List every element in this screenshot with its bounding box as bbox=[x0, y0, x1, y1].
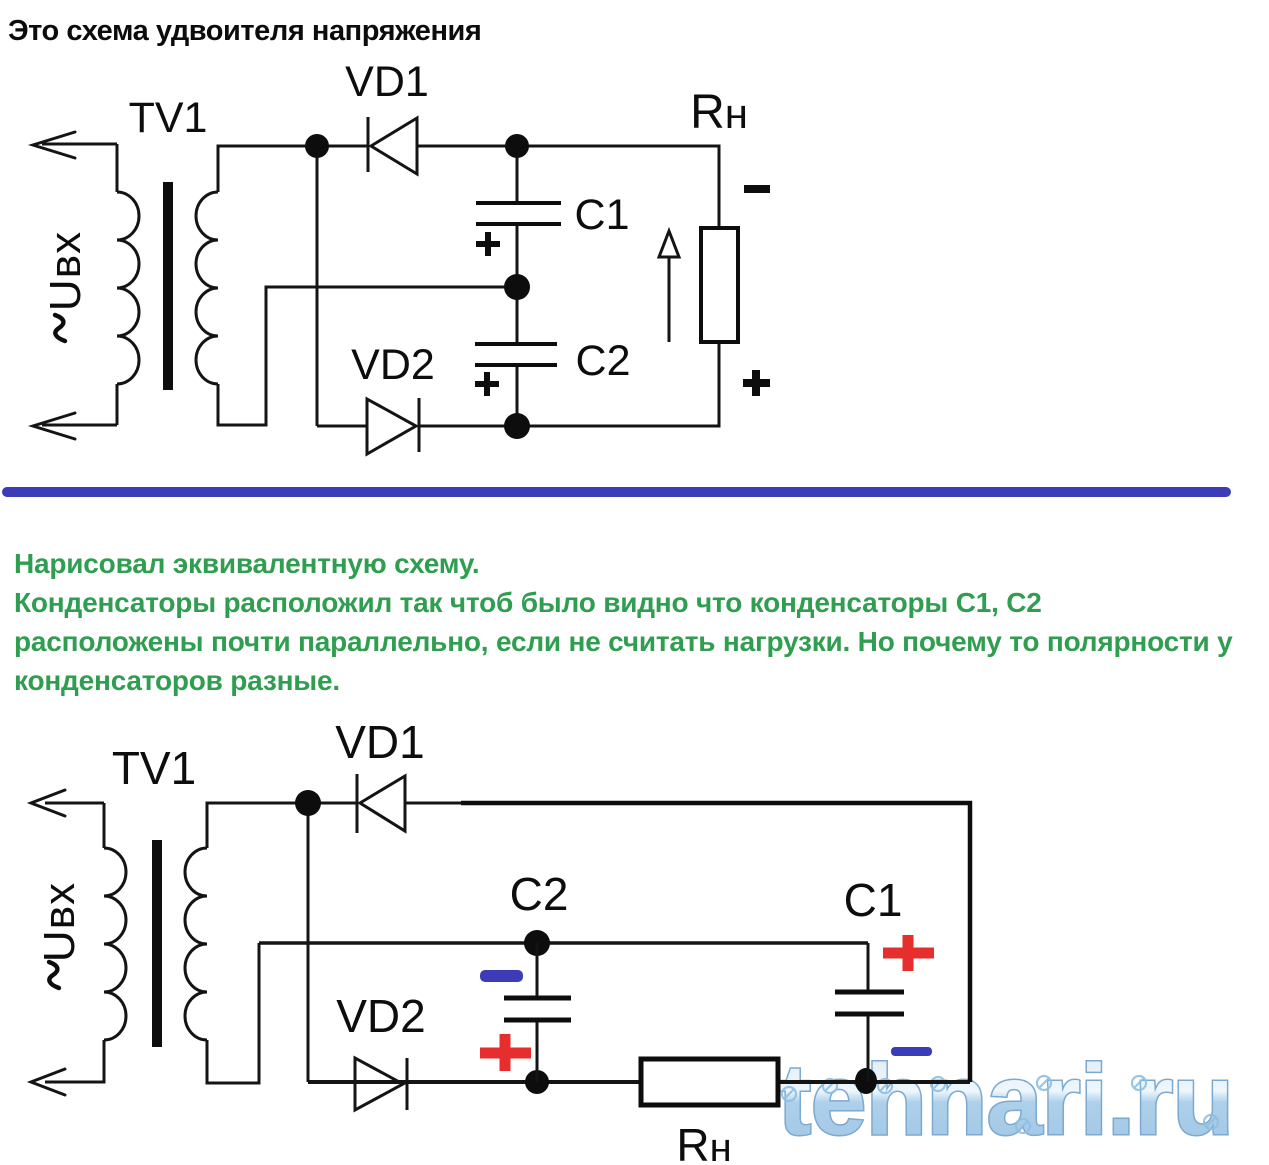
C1 plus sign red bbox=[883, 935, 934, 971]
bottom node junction dot bbox=[504, 413, 530, 439]
wire primary bottom lead bbox=[116, 384, 119, 425]
svg-text:VD2: VD2 bbox=[336, 990, 425, 1042]
input terminal arrow top bbox=[33, 132, 117, 158]
svg-text:C1: C1 bbox=[844, 874, 903, 926]
C2 polarity plus bbox=[475, 372, 499, 396]
svg-text:VD2: VD2 bbox=[351, 341, 435, 389]
current direction arrow bbox=[659, 231, 679, 342]
wire C1 bottom plate to mid node bbox=[516, 226, 519, 287]
wire C1 leads bbox=[867, 943, 870, 1081]
C2 top node dot bbox=[524, 930, 550, 956]
wire VD2 anode lead bbox=[317, 425, 368, 428]
green commentary text bbox=[14, 544, 1233, 700]
C2 minus sign blue bbox=[480, 970, 523, 982]
diode VD2 bbox=[355, 1058, 407, 1110]
svg-text:TV1: TV1 bbox=[112, 742, 196, 794]
input terminal arrow bottom bbox=[33, 413, 117, 439]
primary winding of TV1 bbox=[104, 848, 126, 1040]
wire mid rail to C1 step bbox=[259, 941, 868, 945]
capacitor C2 plates bbox=[475, 344, 557, 365]
wire secondary bottom step to mid node bbox=[218, 287, 517, 425]
wire secondary bottom step bbox=[207, 943, 259, 1083]
diode VD1 bbox=[357, 774, 405, 833]
wire C2 leads bbox=[536, 943, 539, 1082]
wire bottom rail right bbox=[778, 1080, 970, 1084]
node B junction dot bbox=[505, 134, 529, 158]
wire secondary top to node A bbox=[218, 146, 317, 192]
svg-text:Uвх: Uвх bbox=[35, 882, 84, 962]
capacitor C1 plates bbox=[835, 992, 904, 1014]
wire primary top lead bbox=[116, 144, 119, 192]
schematic 2 (equivalent circuit) bbox=[0, 700, 1269, 1165]
transformer core TV1 bbox=[163, 182, 173, 390]
wire vertical node A down to VD2 bbox=[316, 146, 319, 426]
resistor Rн body bbox=[641, 1059, 778, 1105]
wire node B to C1 top plate bbox=[516, 146, 519, 203]
watermark tehnari.ru bbox=[778, 1044, 1233, 1156]
wire secondary top to node A2 bbox=[207, 803, 308, 848]
input terminal arrow top bbox=[31, 790, 104, 816]
wire node B to load corner bbox=[517, 146, 719, 228]
blue divider rule bbox=[2, 487, 1231, 497]
capacitor C1 plates bbox=[476, 203, 561, 224]
diode VD2 bbox=[367, 398, 419, 454]
transformer core TV1 bbox=[152, 840, 162, 1047]
wire C2 bottom plate to bottom node bbox=[516, 367, 519, 426]
schematic 1 (voltage doubler) bbox=[0, 0, 1269, 500]
mid node junction dot bbox=[504, 274, 530, 300]
wire vertical node A2 down bbox=[307, 803, 310, 1082]
wire VD1 cathode to node B bbox=[417, 145, 517, 148]
input terminal arrow bottom bbox=[31, 1069, 104, 1095]
wire VD1 cathode lead thin bbox=[405, 802, 463, 805]
output plus sign bbox=[743, 370, 770, 396]
C2 bottom node dot bbox=[525, 1070, 549, 1094]
svg-text:C2: C2 bbox=[576, 337, 631, 385]
svg-text:Uвх: Uвх bbox=[41, 231, 90, 311]
wire node A2 to VD1 anode bbox=[308, 802, 357, 805]
C2 plus sign red bbox=[480, 1034, 531, 1071]
output minus sign bbox=[744, 185, 770, 193]
C1 polarity plus bbox=[476, 232, 500, 256]
svg-text:TV1: TV1 bbox=[129, 94, 208, 142]
secondary winding of TV1 bbox=[196, 192, 218, 384]
wire mid node to C2 top plate bbox=[516, 287, 519, 343]
node A2 junction dot bbox=[295, 790, 321, 816]
wire VD2 cathode to bottom node bbox=[419, 425, 517, 428]
svg-text:C2: C2 bbox=[510, 868, 569, 920]
wire bottom node to load bottom bbox=[517, 342, 719, 426]
diode VD1 bbox=[368, 117, 417, 174]
secondary winding of TV1 bbox=[185, 848, 207, 1040]
title text bbox=[8, 15, 481, 48]
svg-text:C1: C1 bbox=[575, 191, 630, 239]
svg-text:Rн: Rн bbox=[676, 1119, 731, 1165]
wire node A to VD1 anode bbox=[317, 145, 369, 148]
primary winding of TV1 bbox=[117, 192, 139, 384]
wire bottom rail left bbox=[308, 1080, 641, 1084]
svg-text:tehnari.ru: tehnari.ru bbox=[778, 1044, 1233, 1156]
C1 bottom node dot bbox=[855, 1068, 877, 1094]
resistor Rн body bbox=[701, 228, 738, 342]
wire primary top lead bbox=[103, 803, 106, 848]
wire primary bottom lead bbox=[45, 1040, 104, 1082]
capacitor C2 plates bbox=[504, 998, 571, 1020]
svg-text:VD1: VD1 bbox=[345, 58, 429, 106]
node A junction dot bbox=[305, 134, 329, 158]
svg-text:VD1: VD1 bbox=[335, 716, 424, 768]
svg-text:Rн: Rн bbox=[690, 86, 748, 139]
wire top rail thick bbox=[461, 803, 970, 1082]
C1 minus sign blue bbox=[891, 1047, 932, 1056]
